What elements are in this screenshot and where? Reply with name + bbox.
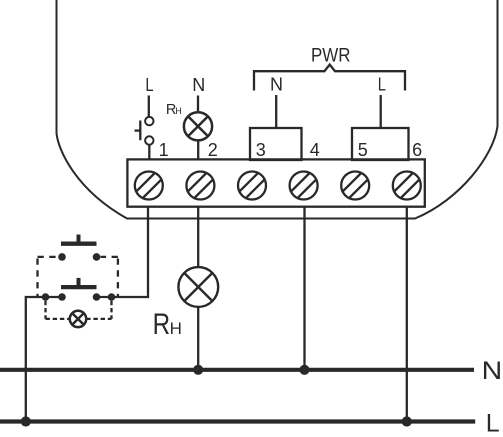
svg-text:L: L xyxy=(145,75,153,95)
push-button S2 actuator xyxy=(77,278,81,285)
dashed lamp branch left drop xyxy=(44,301,46,319)
wire terminal 2 to lamp RH xyxy=(197,207,199,268)
svg-text:3: 3 xyxy=(256,140,266,160)
switch S actuator tick xyxy=(135,129,141,131)
svg-text:L: L xyxy=(486,409,500,437)
switch S contact circles xyxy=(145,117,153,125)
wire terminal 4 to N bus xyxy=(303,207,305,370)
indicator lamp (in push-button) xyxy=(70,311,86,327)
svg-text:N: N xyxy=(482,357,503,385)
dashed box top edge right xyxy=(101,256,118,258)
L bus xyxy=(0,419,475,423)
wire lamp to terminal 2 xyxy=(197,140,199,159)
junction dot terminal 4 on N bus xyxy=(299,365,309,375)
svg-text:PWR: PWR xyxy=(311,45,351,66)
terminal screw 5 xyxy=(335,166,375,206)
wire L to terminal 5-6 box xyxy=(380,95,382,128)
wire terminal 1 to push-buttons xyxy=(96,207,148,297)
svg-text:H: H xyxy=(170,319,182,338)
junction dot lamp on N bus xyxy=(193,365,203,375)
svg-text:N: N xyxy=(270,75,283,95)
svg-text:6: 6 xyxy=(412,140,422,160)
dashed box left edge xyxy=(36,259,38,298)
svg-text:5: 5 xyxy=(358,140,368,160)
svg-text:1: 1 xyxy=(159,140,169,160)
push-button S1 contact dots xyxy=(58,253,66,261)
svg-text:4: 4 xyxy=(310,140,320,160)
junction dot right (lamp branch) xyxy=(108,293,116,301)
wire lamp RH to N bus xyxy=(197,307,199,370)
terminal screw 2 xyxy=(181,166,221,206)
jumper box terminals 3-4 xyxy=(250,128,302,160)
N bus xyxy=(0,368,474,372)
dashed box right edge xyxy=(117,259,119,298)
wire N stub xyxy=(197,96,199,113)
terminal block xyxy=(127,159,424,206)
junction dot left (lamp branch) xyxy=(42,293,50,301)
jumper box terminals 5-6 xyxy=(352,128,409,160)
wire switch to terminal 1 xyxy=(148,145,150,160)
wire push-buttons to L bus xyxy=(26,297,62,422)
dashed box top edge left xyxy=(38,256,59,258)
switch S lever xyxy=(139,121,141,141)
device housing outline xyxy=(57,0,498,219)
PWR brace xyxy=(254,65,405,91)
junction dot left wire on L bus xyxy=(21,416,31,426)
svg-text:R: R xyxy=(153,308,171,341)
wire terminal 6 to L bus xyxy=(406,207,408,422)
wire L stub xyxy=(148,96,150,117)
push-button S1 actuator xyxy=(77,235,81,242)
dashed lamp branch right drop xyxy=(110,301,112,319)
terminal screw 3 xyxy=(232,166,272,206)
dashed lamp branch right horizontal xyxy=(86,318,111,320)
terminal screw 1 xyxy=(129,166,169,206)
dashed lamp branch left horizontal xyxy=(46,318,70,320)
wire N to terminal 3-4 box xyxy=(275,95,277,128)
push-button S2 contact dots xyxy=(58,293,66,301)
svg-text:N: N xyxy=(192,75,205,95)
junction dot terminal 6 on L bus xyxy=(402,416,412,426)
svg-text:H: H xyxy=(175,106,181,116)
svg-text:L: L xyxy=(378,74,386,94)
lamp RH small xyxy=(184,112,212,140)
svg-text:2: 2 xyxy=(208,140,218,160)
terminal screw 6 xyxy=(387,166,427,206)
terminal screw 4 xyxy=(284,166,324,206)
lamp RH xyxy=(178,267,218,307)
